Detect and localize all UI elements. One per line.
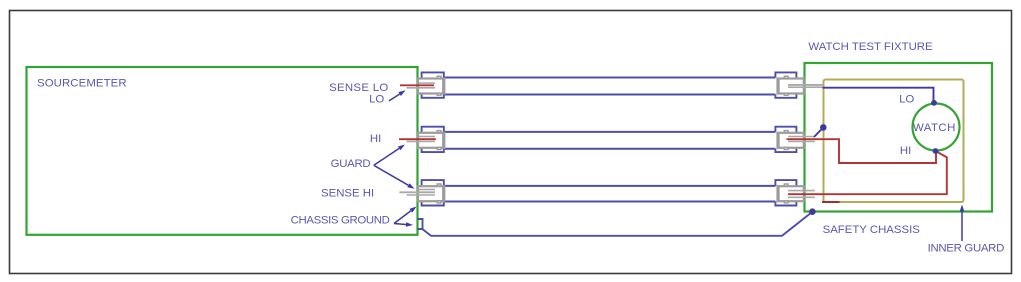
svg-text:LO: LO bbox=[369, 94, 384, 106]
svg-text:GUARD: GUARD bbox=[331, 158, 371, 170]
svg-text:WATCH: WATCH bbox=[913, 122, 956, 134]
svg-text:WATCH TEST FIXTURE: WATCH TEST FIXTURE bbox=[808, 41, 933, 53]
svg-text:SOURCEMETER: SOURCEMETER bbox=[37, 77, 127, 89]
svg-text:HI: HI bbox=[900, 145, 911, 157]
svg-text:LO: LO bbox=[899, 94, 914, 106]
svg-text:CHASSIS GROUND: CHASSIS GROUND bbox=[291, 215, 390, 227]
svg-text:SENSE LO: SENSE LO bbox=[329, 82, 388, 94]
svg-text:SAFETY CHASSIS: SAFETY CHASSIS bbox=[823, 224, 921, 236]
svg-text:SENSE HI: SENSE HI bbox=[321, 187, 374, 199]
svg-text:INNER GUARD: INNER GUARD bbox=[928, 243, 1005, 255]
svg-text:HI: HI bbox=[370, 133, 381, 145]
